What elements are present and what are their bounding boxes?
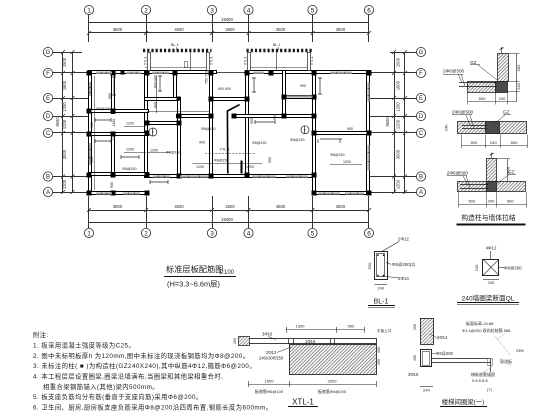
svg-text:A: A [419, 190, 423, 196]
svg-text:BL-1: BL-1 [171, 43, 179, 47]
svg-text:1100: 1100 [112, 133, 116, 141]
stair bottom wall [210, 98, 249, 101]
svg-text:240: 240 [444, 124, 449, 131]
svg-text:240x300/250: 240x300/250 [259, 356, 284, 361]
svg-text:1:100: 1:100 [219, 270, 235, 276]
svg-text:XTL-1: XTL-1 [143, 56, 147, 65]
svg-text:600 600: 600 600 [154, 75, 158, 88]
segment dim line [89, 32, 369, 34]
svg-text:1200: 1200 [62, 119, 67, 129]
left end block [239, 337, 250, 346]
grid-2 wall [145, 71, 148, 178]
mid bottom wall B row [145, 175, 315, 178]
svg-text:T: T [304, 127, 307, 132]
svg-text:1200: 1200 [343, 160, 351, 164]
svg-text:900: 900 [300, 84, 306, 88]
svg-text:240: 240 [474, 264, 479, 271]
svg-text:C: C [419, 131, 424, 137]
svg-text:标准层板配筋图: 标准层板配筋图 [166, 264, 223, 274]
svg-text:900: 900 [250, 118, 254, 124]
svg-text:C: C [46, 131, 51, 137]
svg-text:900: 900 [154, 102, 158, 108]
svg-text:FTL-1: FTL-1 [220, 148, 230, 152]
svg-text:1500: 1500 [396, 57, 401, 67]
svg-text:1. 板采用混凝土强度等级为C25。: 1. 板采用混凝土强度等级为C25。 [33, 340, 135, 349]
left block C row wall [89, 133, 149, 136]
right outer wall [367, 71, 370, 195]
svg-text:平板上口: 平板上口 [377, 328, 392, 333]
svg-text:2Φ6@500: 2Φ6@500 [447, 170, 469, 175]
BL-1 labels [171, 43, 281, 47]
right wall windows [367, 82, 369, 102]
svg-text:梯板底筋锚固: 梯板底筋锚固 [471, 371, 495, 377]
grid-3 stair wall [210, 71, 213, 178]
faint annotations [462, 320, 524, 392]
bottom dims [249, 384, 377, 386]
centerline [501, 47, 503, 54]
svg-text:现浇板: 现浇板 [500, 358, 512, 364]
svg-text:1200: 1200 [62, 179, 67, 189]
svg-text:6. 卫生间、厨房,厨房板支座负筋采用Φ8@200沿四周布置: 6. 卫生间、厨房,厨房板支座负筋采用Φ8@200沿四周布置,钢筋长度为600m… [33, 403, 273, 412]
svg-text:600 600: 600 600 [218, 87, 231, 91]
svg-text:3000: 3000 [62, 149, 67, 159]
svg-text:1500: 1500 [265, 379, 275, 384]
svg-text:Φ8@150: Φ8@150 [96, 107, 111, 111]
svg-text:相重合梁钢筋锚入(其他)梁内500mm。: 相重合梁钢筋锚入(其他)梁内500mm。 [43, 382, 159, 391]
svg-text:1: 1 [87, 7, 91, 14]
svg-text:F: F [419, 71, 423, 77]
svg-text:4500: 4500 [276, 204, 286, 209]
svg-text:6: 6 [367, 7, 371, 14]
svg-text:240: 240 [490, 140, 497, 145]
svg-text:Φ8@150: Φ8@150 [122, 167, 137, 171]
svg-text:1Φ16: 1Φ16 [305, 339, 316, 344]
svg-text:1500: 1500 [62, 57, 67, 67]
small dim line inside plan [95, 76, 363, 190]
dims right [516, 53, 518, 101]
svg-text:2: 2 [144, 230, 148, 237]
tie bars [459, 82, 497, 84]
svg-text:2Φ6@500: 2Φ6@500 [452, 110, 474, 115]
svg-text:4. 本工程层层设置圈梁,圈梁沿墙满布,当圈梁和其他梁相重合: 4. 本工程层层设置圈梁,圈梁沿墙满布,当圈梁和其他梁相重合时, [33, 372, 223, 381]
top dimension texts [113, 17, 346, 32]
svg-text:3000: 3000 [396, 149, 401, 159]
svg-text:4Φ12: 4Φ12 [486, 246, 497, 251]
svg-text:500: 500 [468, 199, 475, 204]
svg-text:F: F [46, 71, 50, 77]
svg-text:1: 1 [87, 230, 91, 237]
svg-text:BL-1: BL-1 [374, 299, 389, 306]
svg-text:900: 900 [108, 93, 112, 99]
top dim [286, 329, 364, 331]
svg-text:240: 240 [423, 388, 430, 393]
bottom dim [420, 386, 433, 388]
svg-text:B: B [419, 175, 423, 181]
XTL-1 cantilever connectors [148, 53, 311, 71]
svg-text:500: 500 [511, 140, 518, 145]
svg-text:240: 240 [377, 286, 384, 291]
svg-text:3800: 3800 [336, 204, 346, 209]
svg-text:2Φ6: 2Φ6 [516, 348, 524, 353]
right C row wall [313, 132, 371, 135]
svg-text:E: E [46, 96, 50, 102]
left block B row wall [89, 173, 149, 176]
dimension ticks left/right columns [61, 50, 407, 194]
svg-text:板底筋Φ6@100: 板底筋Φ6@100 [255, 388, 284, 394]
svg-text:2600: 2600 [225, 204, 235, 209]
svg-text:2600: 2600 [225, 27, 235, 32]
svg-text:9600: 9600 [385, 117, 390, 127]
svg-text:D: D [46, 114, 51, 120]
svg-text:3800: 3800 [336, 27, 346, 32]
svg-text:5: 5 [311, 7, 315, 14]
svg-text:Φ1.4@200 双向拉结筋 988: Φ1.4@200 双向拉结筋 988 [462, 327, 511, 333]
svg-text:900: 900 [90, 122, 94, 128]
svg-text:XTL-1: XTL-1 [292, 398, 314, 407]
svg-text:9 8 8 8 8: 9 8 8 8 8 [472, 378, 488, 383]
section leader marks on strips [190, 50, 192, 71]
grid-5 wall [313, 71, 316, 195]
grid bubbles right [416, 47, 425, 196]
svg-text:500: 500 [479, 96, 486, 101]
top wall F row left part [89, 71, 217, 74]
stair cut line [227, 105, 239, 174]
bath west wall [283, 71, 286, 118]
column [486, 122, 500, 134]
svg-text:4500: 4500 [174, 204, 184, 209]
left wall windows [89, 82, 91, 96]
right block bottom wall [313, 192, 371, 195]
svg-text:240墙圈梁断面QL: 240墙圈梁断面QL [462, 294, 515, 303]
svg-text:E: E [419, 96, 423, 102]
hall D wall [233, 115, 315, 118]
stair west lower wall [178, 98, 181, 178]
svg-text:500: 500 [348, 324, 355, 329]
svg-text:900: 900 [199, 141, 205, 145]
overall dim line [89, 22, 369, 24]
svg-text:4500: 4500 [276, 27, 286, 32]
bottom walls windows [96, 192, 112, 194]
svg-text:附注:: 附注: [33, 330, 49, 339]
grid bubble 1 top [84, 5, 373, 14]
svg-text:1200: 1200 [126, 148, 134, 152]
svg-text:1200: 1200 [396, 119, 401, 129]
stair landing wall [145, 122, 181, 125]
svg-text:BL-1: BL-1 [273, 43, 281, 47]
svg-text:200: 200 [233, 338, 237, 344]
svg-text:G: G [419, 50, 424, 56]
balcony strip BL-1 right [247, 49, 313, 53]
svg-text:900: 900 [273, 114, 277, 120]
svg-text:D: D [419, 114, 424, 120]
svg-text:100: 100 [377, 347, 381, 353]
svg-text:T: T [152, 130, 155, 135]
electric symbol left [149, 128, 157, 136]
hatched wall [290, 345, 377, 375]
svg-text:500: 500 [367, 262, 372, 269]
grid-4 wall [246, 71, 249, 177]
kitchen south wall [145, 98, 179, 101]
svg-text:A: A [46, 190, 50, 196]
opening (stair) single line [216, 72, 247, 74]
svg-text:240: 240 [516, 82, 521, 89]
svg-text:Φ8@150: Φ8@150 [252, 141, 267, 145]
bottom-left wall A row [89, 192, 149, 195]
svg-text:3600: 3600 [113, 204, 123, 209]
svg-text:3: 3 [210, 230, 214, 237]
svg-text:构造柱与墙体拉结: 构造柱与墙体拉结 [461, 213, 516, 222]
grid bubbles bottom [84, 228, 373, 237]
slab band [249, 339, 377, 344]
left block inner vertical wall bottom [112, 133, 115, 176]
svg-text:100: 100 [413, 324, 417, 330]
svg-text:(7): (7) [487, 387, 493, 392]
svg-text:450: 450 [377, 359, 381, 365]
svg-text:4500: 4500 [174, 27, 184, 32]
left block inner vertical wall top [112, 71, 115, 114]
svg-text:500: 500 [516, 64, 521, 71]
svg-text:板底筋Φ6@200: 板底筋Φ6@200 [318, 388, 347, 394]
svg-text:1200: 1200 [396, 179, 401, 189]
left block D row wall [89, 110, 149, 113]
svg-text:900: 900 [90, 157, 94, 163]
hatched wall [421, 319, 434, 345]
dim ticks top [87, 31, 371, 35]
svg-text:900: 900 [268, 157, 272, 163]
beam section [421, 350, 432, 367]
svg-text:1800: 1800 [62, 80, 67, 90]
svg-text:450: 450 [413, 355, 417, 361]
svg-text:XTL-1: XTL-1 [310, 56, 314, 65]
svg-text:2Φ6@500: 2Φ6@500 [443, 69, 465, 74]
svg-text:板面标高-24.88: 板面标高-24.88 [466, 320, 494, 326]
svg-text:GZ: GZ [503, 110, 510, 115]
svg-text:Φ8@150: Φ8@150 [330, 153, 345, 157]
svg-text:1100: 1100 [112, 119, 116, 127]
svg-text:19400: 19400 [221, 217, 233, 222]
svg-text:3600: 3600 [113, 27, 123, 32]
svg-text:240: 240 [499, 96, 506, 101]
top wall F row right part [247, 71, 371, 74]
svg-text:1200: 1200 [396, 102, 401, 112]
svg-text:4: 4 [247, 7, 251, 14]
slab lines [432, 358, 491, 360]
svg-text:2Φ14: 2Φ14 [437, 335, 448, 340]
svg-text:Φ6@200(2): Φ6@200(2) [392, 262, 416, 267]
svg-text:9600: 9600 [55, 117, 60, 127]
svg-text:3Φ16: 3Φ16 [262, 332, 273, 337]
svg-text:3: 3 [210, 7, 214, 14]
svg-text:Φ6@200: Φ6@200 [436, 351, 454, 356]
svg-text:500: 500 [470, 140, 477, 145]
svg-text:240: 240 [488, 280, 495, 285]
svg-text:900: 900 [347, 127, 353, 131]
slab rebar bar symbols [95, 76, 342, 184]
electric symbol right [301, 126, 309, 134]
svg-text:1200: 1200 [126, 122, 134, 126]
corner column [496, 82, 508, 93]
svg-text:楼梯间圈梁(一): 楼梯间圈梁(一) [442, 397, 485, 406]
balcony strip BL-1 left [143, 49, 212, 53]
svg-text:Φ8@150: Φ8@150 [201, 127, 216, 131]
svg-text:750 750: 750 750 [204, 71, 208, 84]
dims below [468, 101, 517, 103]
grid extension lines top [88, 15, 90, 43]
svg-text:5. 板支座负筋均分布筋(垂直于支座向筋)采用Φ6@200。: 5. 板支座负筋均分布筋(垂直于支座向筋)采用Φ6@200。 [33, 392, 203, 401]
svg-text:1200: 1200 [62, 102, 67, 112]
svg-text:(H=3.3~6.6m层): (H=3.3~6.6m层) [167, 280, 220, 289]
svg-text:5: 5 [311, 230, 315, 237]
svg-text:Φ8@150: Φ8@150 [214, 159, 229, 163]
svg-text:1200: 1200 [150, 149, 158, 153]
svg-text:240: 240 [488, 199, 495, 204]
svg-text:500: 500 [506, 166, 511, 173]
svg-text:B: B [46, 175, 50, 181]
svg-text:Φ8@150: Φ8@150 [290, 138, 305, 142]
grid bubbles left [43, 47, 52, 196]
bath shaft gray fill [287, 96, 313, 98]
svg-text:4: 4 [247, 230, 251, 237]
mullion ticks [89, 72, 370, 195]
svg-text:1200: 1200 [196, 165, 204, 169]
left outer wall [89, 71, 92, 195]
svg-text:G: G [46, 50, 51, 56]
svg-text:6: 6 [367, 230, 371, 237]
svg-text:500: 500 [507, 199, 514, 204]
svg-text:1800: 1800 [396, 80, 401, 90]
svg-text:2. 图中未标明板厚h 为120mm,图中未标注的现浇板钢筋: 2. 图中未标明板厚h 为120mm,图中未标注的现浇板钢筋均为Φ8@200。 [33, 351, 250, 360]
top wall windows [96, 72, 112, 74]
svg-text:Φ6@200: Φ6@200 [504, 265, 522, 270]
svg-text:2Φ12: 2Φ12 [398, 237, 409, 242]
horizontal wall hatched [468, 82, 496, 93]
stair left wall [174, 71, 177, 101]
svg-text:XTL-1: XTL-1 [244, 56, 248, 65]
svg-text:19400: 19400 [221, 17, 233, 22]
svg-text:2: 2 [144, 7, 148, 14]
vertical wall hatched [498, 54, 509, 82]
svg-text:900: 900 [110, 182, 114, 188]
tie bars [462, 125, 487, 127]
bath south wall [283, 96, 316, 99]
svg-text:2Φ12: 2Φ12 [266, 350, 277, 355]
svg-text:3Φ16: 3Φ16 [408, 372, 419, 377]
svg-text:2Φ14: 2Φ14 [398, 276, 409, 281]
svg-text:1300: 1300 [296, 324, 306, 329]
structural columns GZ (black squares) [87, 71, 92, 76]
svg-text:3. 未标注的柱( ■ )为构造柱(GZ240X240),其: 3. 未标注的柱( ■ )为构造柱(GZ240X240),其中纵筋4Φ12,箍筋… [33, 361, 256, 370]
svg-text:XTL-1: XTL-1 [210, 56, 214, 65]
svg-text:1200: 1200 [246, 165, 254, 169]
svg-text:3200: 3200 [328, 379, 338, 384]
